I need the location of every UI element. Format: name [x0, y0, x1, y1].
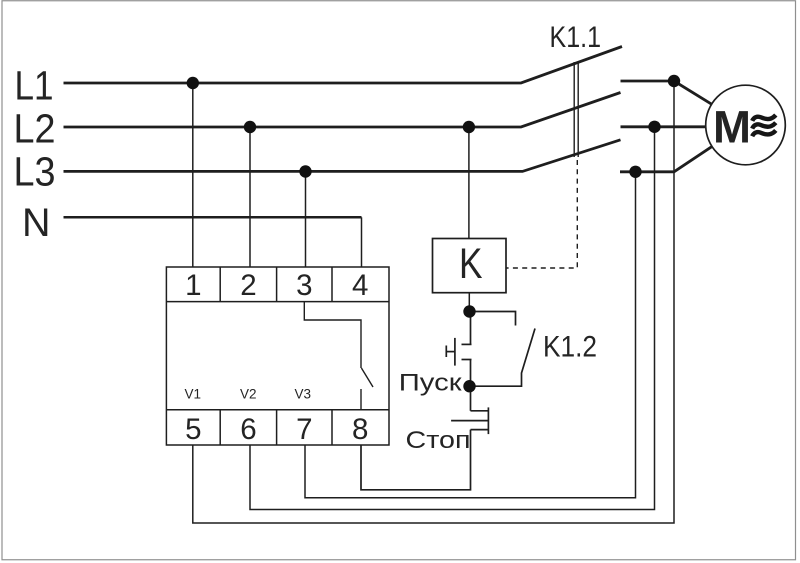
svg-text:L3: L3: [14, 148, 56, 194]
svg-text:Стоп: Стоп: [406, 427, 471, 454]
svg-text:4: 4: [352, 269, 368, 302]
svg-text:L1: L1: [15, 63, 54, 109]
svg-text:3: 3: [296, 269, 312, 302]
svg-text:8: 8: [352, 413, 368, 446]
svg-text:M: M: [713, 101, 751, 152]
svg-text:N: N: [22, 201, 51, 245]
svg-text:6: 6: [240, 413, 256, 446]
svg-text:L2: L2: [14, 106, 56, 152]
svg-text:K1.1: K1.1: [550, 21, 602, 54]
svg-text:K: K: [459, 240, 483, 288]
svg-text:V2: V2: [240, 387, 257, 402]
svg-text:K1.2: K1.2: [543, 331, 597, 364]
svg-text:2: 2: [240, 269, 256, 302]
svg-text:1: 1: [185, 269, 201, 302]
svg-text:V1: V1: [185, 387, 202, 402]
svg-text:5: 5: [185, 413, 201, 446]
svg-text:Пуск: Пуск: [399, 370, 462, 397]
svg-text:7: 7: [296, 413, 312, 446]
svg-text:V3: V3: [295, 387, 312, 402]
